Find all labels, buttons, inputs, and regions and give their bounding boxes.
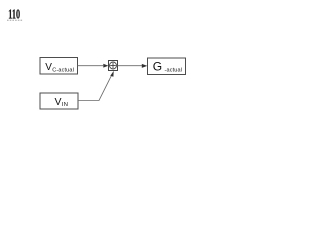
svg-text:G: G [153, 59, 162, 73]
svg-text:IN: IN [62, 102, 68, 108]
svg-text:V: V [55, 96, 62, 108]
svg-text:V: V [45, 62, 52, 73]
svg-text:C-actual: C-actual [52, 68, 74, 74]
svg-text:-actual: -actual [165, 68, 183, 74]
